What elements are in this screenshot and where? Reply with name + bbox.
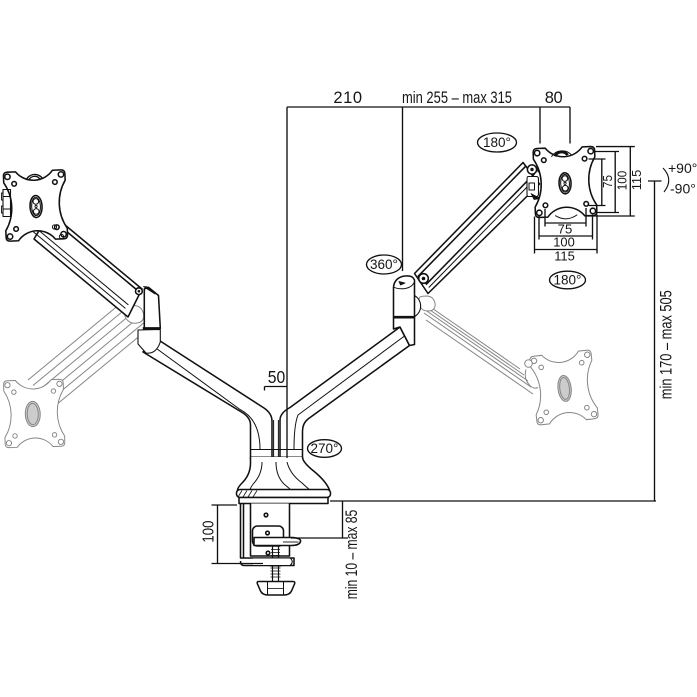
svg-text:75: 75 <box>600 175 615 188</box>
svg-text:50: 50 <box>268 367 286 387</box>
svg-text:270°: 270° <box>311 441 339 456</box>
svg-text:100: 100 <box>553 235 575 250</box>
svg-text:100: 100 <box>200 521 217 543</box>
svg-text:180°: 180° <box>483 135 511 150</box>
svg-text:+90°: +90° <box>668 160 697 176</box>
svg-text:min 255 – max 315: min 255 – max 315 <box>402 89 512 107</box>
svg-text:115: 115 <box>554 249 575 264</box>
svg-text:-90°: -90° <box>670 181 696 197</box>
svg-text:180°: 180° <box>554 273 582 288</box>
svg-text:210: 210 <box>333 89 362 107</box>
svg-text:100: 100 <box>615 171 630 190</box>
svg-text:360°: 360° <box>370 257 398 272</box>
svg-text:min 10 – max 85: min 10 – max 85 <box>342 510 361 600</box>
svg-text:min 170 – max 505: min 170 – max 505 <box>658 290 676 399</box>
svg-text:115: 115 <box>629 170 644 191</box>
svg-text:80: 80 <box>545 89 563 107</box>
